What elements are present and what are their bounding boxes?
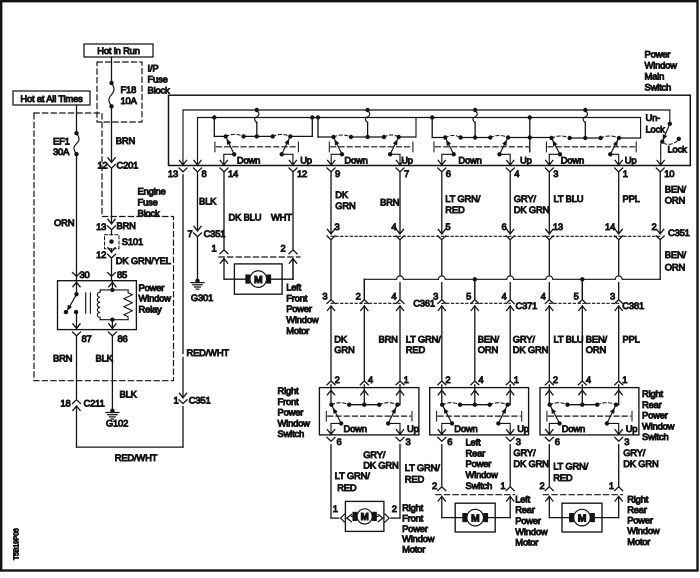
svg-text:1: 1 — [623, 168, 628, 179]
svg-text:PPL: PPL — [623, 333, 640, 344]
svg-text:Block: Block — [138, 207, 161, 218]
svg-text:9: 9 — [335, 168, 340, 179]
svg-text:Left: Left — [286, 282, 301, 293]
svg-text:Motor: Motor — [286, 325, 309, 336]
svg-text:BRN: BRN — [379, 333, 398, 344]
svg-text:13: 13 — [96, 221, 106, 232]
svg-text:LT GRN/: LT GRN/ — [405, 462, 440, 473]
svg-text:4: 4 — [478, 374, 483, 385]
svg-text:Window: Window — [278, 417, 311, 428]
svg-text:Lock: Lock — [668, 144, 688, 155]
svg-text:BEN/: BEN/ — [478, 333, 500, 344]
svg-text:Down: Down — [237, 154, 260, 165]
svg-text:DK: DK — [334, 333, 348, 344]
svg-text:S101: S101 — [122, 236, 143, 247]
svg-text:6: 6 — [447, 436, 452, 447]
svg-text:Rear: Rear — [627, 504, 647, 515]
svg-text:4: 4 — [502, 290, 507, 301]
svg-text:RED/WHT: RED/WHT — [187, 347, 230, 358]
svg-text:LT GRN/: LT GRN/ — [335, 470, 370, 481]
svg-text:Window: Window — [139, 293, 172, 304]
svg-text:1: 1 — [173, 395, 178, 406]
svg-text:10: 10 — [664, 168, 674, 179]
svg-text:DK GRN: DK GRN — [363, 460, 398, 471]
svg-text:LT GRN/: LT GRN/ — [406, 333, 441, 344]
svg-text:13: 13 — [168, 168, 178, 179]
svg-text:6: 6 — [337, 436, 342, 447]
svg-text:DK GRN/YEL: DK GRN/YEL — [116, 255, 171, 266]
svg-text:4: 4 — [514, 168, 519, 179]
svg-text:Power: Power — [278, 407, 304, 418]
svg-text:DK GRN: DK GRN — [513, 344, 548, 355]
svg-text:Motor: Motor — [402, 543, 425, 554]
svg-text:Up: Up — [401, 154, 413, 165]
svg-text:Power: Power — [286, 303, 312, 314]
svg-text:Motor: Motor — [627, 536, 650, 547]
svg-text:Fuse: Fuse — [138, 197, 158, 208]
svg-text:BEN/: BEN/ — [665, 249, 687, 260]
svg-text:Left: Left — [466, 437, 481, 448]
svg-text:Motor: Motor — [515, 537, 538, 548]
svg-text:85: 85 — [117, 269, 127, 280]
svg-text:6: 6 — [502, 221, 507, 232]
svg-text:Front: Front — [278, 396, 300, 407]
svg-text:1: 1 — [404, 374, 409, 385]
svg-text:Power: Power — [627, 515, 653, 526]
svg-text:1: 1 — [622, 374, 627, 385]
svg-text:Rear: Rear — [515, 504, 535, 515]
svg-text:BRN: BRN — [117, 220, 136, 231]
svg-text:Switch: Switch — [645, 82, 672, 93]
svg-text:Power: Power — [515, 515, 541, 526]
svg-text:GRY/: GRY/ — [513, 333, 536, 344]
svg-text:14: 14 — [228, 168, 238, 179]
svg-text:3: 3 — [516, 436, 521, 447]
svg-text:2: 2 — [652, 221, 657, 232]
svg-text:5: 5 — [574, 290, 579, 301]
svg-text:RED: RED — [553, 472, 573, 483]
svg-text:Engine: Engine — [138, 186, 166, 197]
svg-text:1: 1 — [500, 480, 505, 491]
svg-text:BLK: BLK — [199, 196, 217, 207]
svg-text:Switch: Switch — [642, 431, 669, 442]
svg-text:Lock: Lock — [646, 123, 666, 134]
svg-text:Power: Power — [645, 49, 671, 60]
svg-text:Window: Window — [645, 60, 678, 71]
svg-text:14: 14 — [605, 221, 615, 232]
svg-text:3: 3 — [335, 221, 340, 232]
svg-text:4: 4 — [541, 290, 546, 301]
svg-text:BEN/: BEN/ — [665, 183, 687, 194]
svg-text:BLK: BLK — [120, 389, 138, 400]
svg-text:4: 4 — [391, 221, 396, 232]
svg-text:Window: Window — [515, 526, 548, 537]
svg-text:Front: Front — [286, 292, 308, 303]
svg-text:3: 3 — [610, 290, 615, 301]
svg-text:5: 5 — [445, 221, 450, 232]
svg-text:3: 3 — [553, 168, 558, 179]
svg-text:8: 8 — [202, 168, 207, 179]
svg-text:RED/WHT: RED/WHT — [115, 452, 158, 463]
svg-text:Window: Window — [466, 469, 499, 480]
svg-text:87: 87 — [82, 333, 92, 344]
svg-text:GRY/: GRY/ — [513, 447, 536, 458]
svg-text:Hot in Run: Hot in Run — [97, 45, 140, 56]
svg-text:Block: Block — [148, 85, 171, 96]
svg-text:BRN: BRN — [116, 135, 135, 146]
svg-text:Power: Power — [642, 410, 668, 421]
svg-text:Up: Up — [407, 423, 419, 434]
svg-text:C211: C211 — [84, 398, 105, 409]
svg-text:M: M — [578, 513, 586, 524]
svg-text:Fuse: Fuse — [148, 74, 168, 85]
svg-text:Left: Left — [515, 493, 530, 504]
svg-text:13: 13 — [553, 221, 563, 232]
svg-text:C371: C371 — [516, 300, 538, 311]
svg-text:G301: G301 — [191, 292, 213, 303]
svg-text:5: 5 — [466, 290, 471, 301]
svg-text:ORN: ORN — [54, 217, 74, 228]
svg-text:Right: Right — [627, 493, 649, 504]
svg-text:Window: Window — [627, 525, 660, 536]
svg-text:12: 12 — [96, 249, 106, 260]
svg-text:F18: F18 — [121, 84, 137, 95]
svg-text:ORN: ORN — [665, 195, 685, 206]
svg-text:C201: C201 — [117, 159, 139, 170]
svg-text:30: 30 — [80, 269, 90, 280]
svg-text:4: 4 — [586, 374, 591, 385]
svg-text:3: 3 — [433, 290, 438, 301]
svg-text:86: 86 — [118, 333, 128, 344]
svg-text:Up: Up — [517, 423, 529, 434]
svg-text:RED: RED — [445, 204, 465, 215]
svg-text:GRY/: GRY/ — [514, 193, 537, 204]
svg-text:DK GRN: DK GRN — [623, 458, 658, 469]
svg-text:Right: Right — [642, 388, 664, 399]
svg-text:10A: 10A — [121, 95, 138, 106]
svg-text:GRN: GRN — [334, 344, 354, 355]
svg-text:3: 3 — [322, 290, 327, 301]
svg-text:7: 7 — [187, 228, 192, 239]
svg-text:1: 1 — [514, 374, 519, 385]
svg-text:C351: C351 — [189, 395, 211, 406]
svg-text:M: M — [471, 513, 479, 524]
svg-text:Hot at All Times: Hot at All Times — [20, 93, 83, 104]
svg-text:12: 12 — [297, 168, 307, 179]
svg-text:Un-: Un- — [646, 112, 661, 123]
svg-text:LT GRN/: LT GRN/ — [445, 193, 480, 204]
svg-text:Window: Window — [642, 420, 675, 431]
svg-text:Up: Up — [626, 423, 638, 434]
svg-text:2: 2 — [392, 503, 397, 514]
svg-text:6: 6 — [446, 168, 451, 179]
svg-text:C351: C351 — [204, 228, 226, 239]
svg-text:BRN: BRN — [380, 197, 399, 208]
svg-text:Down: Down — [458, 154, 481, 165]
svg-text:2: 2 — [553, 374, 558, 385]
svg-text:BEN/: BEN/ — [586, 333, 608, 344]
svg-text:4: 4 — [368, 374, 373, 385]
svg-text:PPL: PPL — [623, 193, 640, 204]
svg-text:M: M — [361, 512, 369, 523]
svg-text:2: 2 — [280, 243, 285, 254]
svg-text:7: 7 — [404, 168, 409, 179]
svg-text:2: 2 — [539, 480, 544, 491]
svg-text:Down: Down — [562, 423, 585, 434]
svg-text:G102: G102 — [106, 417, 128, 428]
svg-text:ORN: ORN — [478, 344, 498, 355]
svg-text:Rear: Rear — [466, 447, 486, 458]
svg-text:Power: Power — [139, 282, 165, 293]
svg-text:1: 1 — [211, 243, 216, 254]
svg-text:DK: DK — [335, 189, 349, 200]
svg-text:ORN: ORN — [665, 262, 685, 273]
svg-text:GRN: GRN — [335, 200, 355, 211]
svg-text:RED: RED — [406, 344, 426, 355]
svg-text:I/P: I/P — [148, 63, 159, 74]
svg-text:BRN: BRN — [53, 353, 72, 364]
svg-text:3: 3 — [406, 436, 411, 447]
svg-text:Down: Down — [344, 423, 367, 434]
svg-text:GRY/: GRY/ — [363, 449, 386, 460]
svg-text:RED: RED — [337, 482, 357, 493]
svg-text:WHT: WHT — [271, 212, 292, 223]
svg-text:BLK: BLK — [96, 353, 114, 364]
svg-text:LT BLU: LT BLU — [554, 193, 584, 204]
svg-text:Down: Down — [561, 154, 584, 165]
svg-text:2: 2 — [432, 480, 437, 491]
svg-text:Up: Up — [300, 154, 312, 165]
svg-text:C381: C381 — [622, 300, 644, 311]
svg-text:6: 6 — [555, 436, 560, 447]
svg-text:Switch: Switch — [278, 428, 305, 439]
svg-text:4: 4 — [391, 290, 396, 301]
svg-text:30A: 30A — [53, 146, 70, 157]
svg-text:Relay: Relay — [139, 303, 163, 314]
svg-text:2: 2 — [356, 290, 361, 301]
svg-text:3: 3 — [624, 436, 629, 447]
svg-text:DK BLU: DK BLU — [229, 212, 262, 223]
svg-text:Rear: Rear — [642, 399, 662, 410]
svg-text:Power: Power — [466, 458, 492, 469]
svg-text:Up: Up — [520, 154, 532, 165]
svg-text:Switch: Switch — [466, 480, 493, 491]
svg-text:18: 18 — [60, 398, 70, 409]
svg-text:Window: Window — [286, 314, 319, 325]
svg-text:Right: Right — [278, 385, 300, 396]
svg-text:LT GRN/: LT GRN/ — [553, 461, 588, 472]
svg-text:GRY/: GRY/ — [623, 447, 646, 458]
svg-text:T5B19P06: T5B19P06 — [14, 528, 21, 560]
svg-text:DK GRN: DK GRN — [514, 204, 549, 215]
svg-text:ORN: ORN — [586, 344, 606, 355]
svg-text:LT BLU: LT BLU — [554, 333, 584, 344]
svg-text:Down: Down — [344, 154, 367, 165]
svg-text:1: 1 — [333, 503, 338, 514]
svg-text:Down: Down — [454, 423, 477, 434]
svg-text:EF1: EF1 — [53, 136, 70, 147]
svg-text:2: 2 — [445, 374, 450, 385]
svg-text:Up: Up — [625, 154, 637, 165]
svg-text:DK GRN: DK GRN — [513, 458, 548, 469]
svg-text:C351: C351 — [668, 227, 690, 238]
svg-text:M: M — [254, 275, 262, 286]
svg-text:C361: C361 — [413, 297, 435, 308]
svg-text:2: 2 — [335, 374, 340, 385]
svg-text:RED: RED — [405, 474, 425, 485]
svg-text:1: 1 — [609, 480, 614, 491]
svg-text:Main: Main — [645, 71, 665, 82]
